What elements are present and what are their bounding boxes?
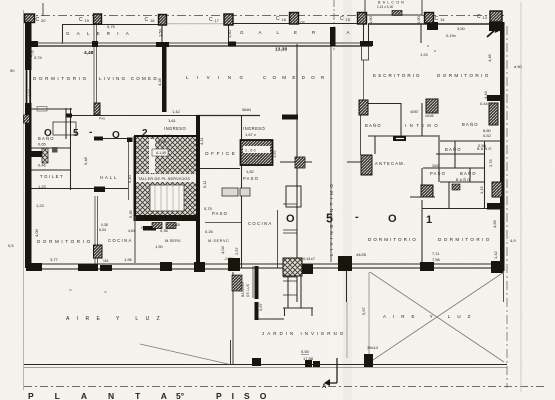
svg-text:PISO: PISO [216, 391, 276, 400]
svg-text:0,35: 0,35 [160, 228, 169, 233]
svg-text:5,75: 5,75 [107, 24, 116, 29]
svg-text:5: 5 [73, 128, 79, 139]
svg-text:19: 19 [85, 18, 90, 23]
svg-text:5,67: 5,67 [258, 302, 263, 311]
svg-text:DORMITORIO: DORMITORIO [438, 237, 492, 242]
svg-text:4,61: 4,61 [128, 229, 135, 233]
svg-text:C: C [435, 16, 439, 22]
svg-text:DORMITORIO: DORMITORIO [33, 76, 89, 81]
svg-text:7,02: 7,02 [297, 20, 306, 25]
svg-text:17: 17 [215, 18, 220, 23]
svg-text:GALERIA: GALERIA [240, 30, 365, 35]
svg-text:7,56: 7,56 [432, 257, 441, 262]
svg-text:LIVING: LIVING [186, 75, 251, 80]
svg-text:1,50: 1,50 [158, 28, 163, 37]
svg-text:5,48: 5,48 [83, 156, 88, 165]
svg-text:BAÑO: BAÑO [456, 177, 471, 182]
svg-text:4,22: 4,22 [27, 88, 32, 97]
svg-text:1,24: 1,24 [420, 52, 429, 57]
svg-text:PVS: PVS [99, 117, 105, 121]
svg-text:1,50: 1,50 [227, 29, 232, 38]
svg-text:C: C [340, 16, 344, 22]
svg-text:C: C [477, 14, 481, 20]
svg-text:1,23: 1,23 [38, 184, 47, 189]
svg-text:1,61: 1,61 [168, 118, 177, 123]
svg-text:3,77: 3,77 [50, 257, 59, 262]
svg-text:7,11: 7,11 [432, 251, 440, 256]
svg-text:1,67 x: 1,67 x [245, 132, 256, 137]
svg-text:DORMITORIO: DORMITORIO [368, 237, 418, 242]
svg-text:PASO: PASO [212, 211, 228, 216]
svg-text:LIVING COMED: LIVING COMED [99, 76, 159, 81]
svg-text:0,74: 0,74 [34, 55, 43, 60]
svg-text:BAÑO: BAÑO [445, 147, 462, 152]
svg-text:4,44: 4,44 [483, 90, 488, 99]
svg-text:BALCON: BALCON [241, 282, 245, 297]
svg-text:20: 20 [41, 18, 46, 23]
svg-text:44/26: 44/26 [356, 252, 367, 257]
svg-text:AIRE Y LUZ: AIRE Y LUZ [66, 316, 167, 322]
svg-text:COCINA: COCINA [108, 238, 133, 243]
svg-text:-2,70-: -2,70- [224, 256, 235, 261]
svg-text:O: O [44, 128, 52, 139]
svg-text:1,96: 1,96 [124, 257, 133, 262]
svg-text:1,13 x 3,18: 1,13 x 3,18 [377, 5, 393, 9]
svg-text:35x14: 35x14 [367, 345, 379, 350]
svg-text:0,65: 0,65 [38, 142, 47, 147]
svg-text:16: 16 [282, 17, 287, 22]
svg-text:BAÑO: BAÑO [462, 122, 479, 127]
svg-text:5: 5 [326, 212, 333, 226]
svg-text:4,9: 4,9 [510, 238, 516, 243]
svg-text:INTIMO: INTIMO [405, 123, 441, 128]
svg-text:5,67: 5,67 [361, 306, 366, 315]
svg-text:18: 18 [150, 18, 155, 23]
svg-text:50: 50 [10, 68, 15, 73]
svg-text:15: 15 [346, 17, 351, 22]
svg-text:COMEDOR: COMEDOR [263, 75, 330, 80]
svg-text:BAÑO: BAÑO [365, 123, 382, 128]
svg-text:M.SERV.: M.SERV. [165, 239, 182, 243]
svg-text:C: C [276, 16, 280, 22]
svg-text:DORMITORIO: DORMITORIO [437, 73, 491, 78]
svg-text:JARDIN INVIERNO: JARDIN INVIERNO [262, 331, 346, 336]
svg-text:ANTECAM.: ANTECAM. [375, 161, 406, 166]
svg-text:0,52: 0,52 [483, 133, 492, 138]
svg-text:0,41x7: 0,41x7 [303, 256, 316, 261]
svg-text:BALCON: BALCON [378, 1, 406, 5]
svg-text:4,48: 4,48 [84, 50, 94, 56]
svg-text:AIRE Y LUZ: AIRE Y LUZ [383, 314, 477, 319]
svg-text:TOILET: TOILET [40, 174, 64, 179]
svg-text:x: x [434, 49, 436, 53]
svg-text:0,81: 0,81 [141, 226, 148, 230]
svg-text:5,10: 5,10 [127, 174, 132, 183]
svg-text:6,11: 6,11 [202, 180, 207, 188]
svg-text:2,14: 2,14 [164, 133, 173, 138]
svg-text:2,57: 2,57 [234, 246, 239, 255]
svg-text:C: C [209, 17, 213, 23]
svg-text:3,50: 3,50 [457, 26, 466, 31]
svg-text:5,75: 5,75 [204, 206, 213, 211]
svg-text:1,82: 1,82 [246, 169, 255, 174]
svg-text:56/84: 56/84 [242, 108, 251, 112]
svg-text:DE LUS: DE LUS [246, 284, 250, 297]
svg-text:C: C [36, 17, 40, 23]
svg-text:1: 1 [426, 214, 432, 226]
svg-text:13,38: 13,38 [275, 47, 287, 53]
svg-text:0,46: 0,46 [38, 163, 47, 168]
svg-text:C: C [79, 17, 83, 23]
svg-text:C: C [145, 17, 149, 23]
svg-text:0,38: 0,38 [101, 223, 108, 227]
svg-text:A: A [322, 384, 327, 390]
svg-text:40/45: 40/45 [425, 114, 434, 118]
svg-text:4,00: 4,00 [34, 228, 39, 237]
svg-text:1,45: 1,45 [172, 222, 181, 227]
svg-text:A 1,60: A 1,60 [156, 151, 166, 155]
svg-text:DORMITORIO: DORMITORIO [37, 239, 93, 244]
svg-text:5,55: 5,55 [301, 349, 310, 354]
svg-text:1,82: 1,82 [272, 149, 277, 158]
svg-text:6,04: 6,04 [99, 228, 106, 232]
svg-text:OFFICE: OFFICE [205, 151, 237, 156]
svg-text:PASO: PASO [243, 176, 259, 181]
svg-text:1,42: 1,42 [493, 250, 498, 259]
svg-text:O: O [388, 213, 397, 225]
svg-text:1,23: 1,23 [36, 203, 45, 208]
svg-text:40/87: 40/87 [410, 110, 419, 114]
svg-text:0,19x: 0,19x [446, 33, 456, 38]
svg-text:TALLER DE PL.SERVICIOS: TALLER DE PL.SERVICIOS [138, 177, 190, 181]
svg-text:0,44: 0,44 [480, 101, 489, 106]
svg-text:115: 115 [103, 259, 109, 263]
svg-text:GALERIA: GALERIA [66, 31, 136, 36]
svg-text:COCINA: COCINA [248, 221, 273, 226]
svg-text:2: 2 [142, 128, 148, 139]
svg-text:0,60: 0,60 [416, 15, 421, 24]
svg-text:INGRESO: INGRESO [243, 126, 265, 131]
svg-text:x: x [427, 44, 429, 48]
svg-text:1,42: 1,42 [172, 109, 181, 114]
svg-text:a 50: a 50 [514, 64, 523, 69]
svg-text:O: O [286, 213, 295, 225]
svg-text:5,04: 5,04 [158, 139, 167, 144]
svg-text:5°: 5° [176, 391, 185, 400]
svg-text:5,35: 5,35 [128, 209, 133, 218]
svg-text:O: O [112, 130, 120, 141]
svg-text:0,50: 0,50 [478, 143, 487, 148]
svg-text:M.SERVC: M.SERVC [208, 239, 229, 243]
svg-text:HALL: HALL [100, 175, 118, 180]
svg-text:4,11: 4,11 [199, 137, 204, 145]
svg-text:BAÑO: BAÑO [460, 171, 477, 176]
svg-text:2,75: 2,75 [488, 158, 493, 167]
svg-text:0,26: 0,26 [205, 229, 214, 234]
svg-text:4,46: 4,46 [487, 53, 492, 62]
svg-text:PLANTA: PLANTA [28, 391, 188, 400]
svg-text:13: 13 [483, 15, 488, 20]
svg-text:17,88: 17,88 [303, 356, 314, 361]
svg-text:PASO: PASO [430, 171, 446, 176]
svg-text:2,02: 2,02 [163, 217, 170, 221]
svg-text:4,17: 4,17 [162, 77, 167, 86]
svg-text:1,60: 1,60 [245, 149, 257, 153]
svg-text:-: - [355, 211, 359, 223]
svg-text:0,5: 0,5 [8, 243, 14, 248]
svg-text:1,40: 1,40 [252, 154, 264, 158]
svg-text:-: - [89, 127, 92, 138]
svg-text:4,66: 4,66 [492, 219, 497, 228]
svg-text:1,50: 1,50 [155, 244, 164, 249]
svg-text:INGRESO: INGRESO [164, 126, 186, 131]
svg-text:4°: 4° [30, 53, 34, 58]
svg-text:1,15: 1,15 [479, 185, 484, 194]
svg-text:14: 14 [440, 17, 445, 22]
svg-text:4,04: 4,04 [220, 245, 225, 254]
svg-text:34/2: 34/2 [432, 164, 439, 168]
svg-text:0,60: 0,60 [368, 15, 373, 24]
svg-text:ESCRITORIO: ESCRITORIO [373, 73, 422, 78]
